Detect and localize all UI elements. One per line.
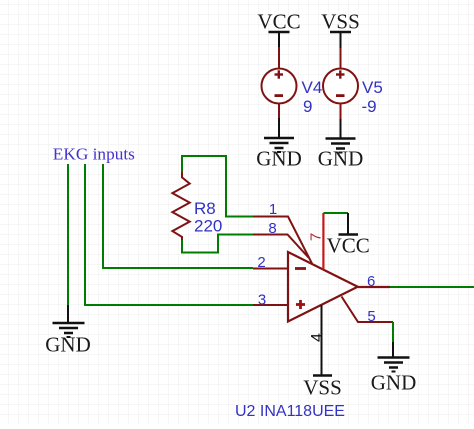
label V5 value -9 <box>362 78 383 116</box>
svg-text:V4: V4 <box>302 78 323 97</box>
svg-text:6: 6 <box>367 273 375 290</box>
svg-text:VSS: VSS <box>303 376 342 400</box>
wire resistor bottom to pin 8 <box>182 235 253 253</box>
op-amp U2 pin 3 <box>253 304 288 306</box>
op-amp minus input marker <box>295 267 306 270</box>
ground below V5 <box>318 119 364 171</box>
svg-text:-9: -9 <box>362 97 377 116</box>
svg-text:U2 INA118UEE: U2 INA118UEE <box>235 403 345 420</box>
svg-text:2: 2 <box>257 254 265 271</box>
svg-text:VCC: VCC <box>327 234 370 258</box>
ground below V4 <box>256 118 302 171</box>
svg-text:VCC: VCC <box>257 10 300 34</box>
wire pin 5 to ground <box>392 322 394 342</box>
label R8 220 <box>194 199 222 236</box>
svg-text:GND: GND <box>371 371 417 395</box>
op-amp plus input marker <box>296 300 305 309</box>
power flag VCC (at pin 7) <box>327 213 370 258</box>
svg-text:7: 7 <box>308 233 325 241</box>
wire pin 7 to VCC <box>323 212 348 214</box>
op-amp U2 pin 4 <box>321 305 323 375</box>
voltage source V5 <box>323 48 358 119</box>
wire output to right edge <box>390 286 474 288</box>
svg-text:V5: V5 <box>362 78 383 97</box>
wire EKG middle to pin 3 <box>85 164 253 305</box>
power flag VSS (top, for V5) <box>321 10 360 49</box>
op-amp U2 pin 5 <box>342 297 394 323</box>
op-amp U2 pin 1 <box>253 217 312 264</box>
svg-text:EKG inputs: EKG inputs <box>53 145 135 164</box>
op-amp U2 pin 7 <box>322 213 324 270</box>
resistor R8 <box>172 172 189 240</box>
op-amp U2 pin 8 <box>253 235 309 258</box>
op-amp U2 pin 6 (output) <box>358 286 390 288</box>
svg-text:GND: GND <box>318 147 364 171</box>
power flag VSS (at pin 4) <box>303 376 342 400</box>
svg-text:4: 4 <box>309 333 326 342</box>
svg-text:8: 8 <box>268 220 276 237</box>
svg-text:5: 5 <box>367 308 375 325</box>
wire EKG left to ground <box>67 164 69 305</box>
svg-text:GND: GND <box>256 147 302 171</box>
ground bottom-right <box>371 342 417 395</box>
label V4 value 9 <box>302 78 323 116</box>
voltage source V4 <box>262 47 297 118</box>
op-amp U2 triangle <box>288 252 358 322</box>
svg-text:9: 9 <box>303 97 312 116</box>
op-amp U2 pin 2 <box>253 268 288 270</box>
svg-text:GND: GND <box>45 333 91 357</box>
ground bottom-left <box>45 305 91 357</box>
svg-text:220: 220 <box>194 217 222 236</box>
svg-text:R8: R8 <box>194 199 216 218</box>
svg-text:3: 3 <box>258 291 266 308</box>
wire EKG right to pin 2 <box>103 164 253 268</box>
svg-text:1: 1 <box>269 201 277 218</box>
svg-text:VSS: VSS <box>321 10 360 34</box>
power flag VCC (top, for V4) <box>257 10 300 48</box>
wire resistor top to pin 1 <box>182 156 253 217</box>
